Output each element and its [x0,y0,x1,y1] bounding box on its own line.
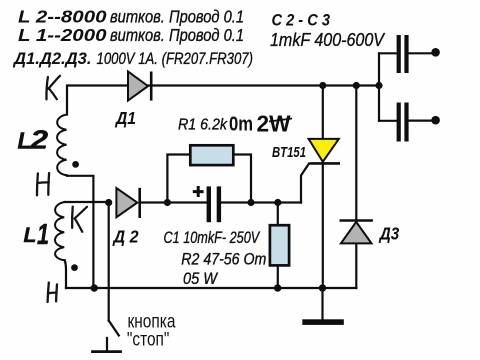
svg-text:витков. Провод 0.1: витков. Провод 0.1 [110,25,244,45]
svg-text:1mkF 400-600V: 1mkF 400-600V [270,30,386,50]
svg-text:05 W: 05 W [183,270,219,288]
svg-text:2: 2 [29,125,48,155]
svg-text:1000V 1А. (FR207.FR307): 1000V 1А. (FR207.FR307) [97,49,254,68]
svg-text:Д1: Д1 [114,108,136,128]
svg-text:0m: 0m [229,114,253,136]
svg-text:"стоп": "стоп" [127,328,170,350]
svg-text:R2 47-56 Om: R2 47-56 Om [181,250,266,268]
svg-text:L 2--8000: L 2--8000 [18,7,107,27]
svg-text:Д1.Д2.Д3.: Д1.Д2.Д3. [12,49,91,68]
svg-text:C 2 - C 3: C 2 - C 3 [272,12,331,30]
svg-text:витков. Провод 0.1: витков. Провод 0.1 [110,7,244,27]
svg-text:L: L [24,224,37,247]
svg-text:BT151: BT151 [272,145,306,161]
svg-text:L: L [18,128,32,154]
svg-text:R1 6.2k: R1 6.2k [178,117,228,134]
svg-text:L 1--2000: L 1--2000 [18,25,107,45]
svg-text:2W: 2W [257,111,291,137]
svg-text:C1 10mkF- 250V: C1 10mkF- 250V [164,229,261,247]
svg-text:Д 2: Д 2 [112,226,139,246]
svg-text:1: 1 [37,219,49,251]
svg-text:Д3: Д3 [378,223,399,243]
